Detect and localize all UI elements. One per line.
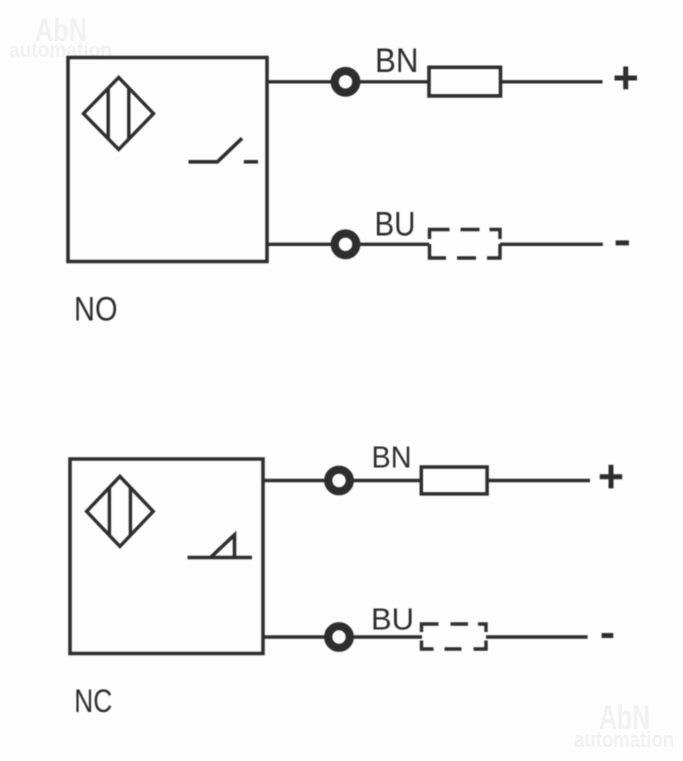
svg-text:automation: automation — [574, 727, 674, 752]
svg-text:BN: BN — [375, 42, 419, 80]
svg-text:BU: BU — [375, 206, 416, 244]
svg-text:NO: NO — [74, 291, 118, 329]
svg-text:BN: BN — [372, 440, 412, 475]
svg-text:BU: BU — [371, 602, 414, 637]
svg-text:NC: NC — [74, 683, 112, 719]
